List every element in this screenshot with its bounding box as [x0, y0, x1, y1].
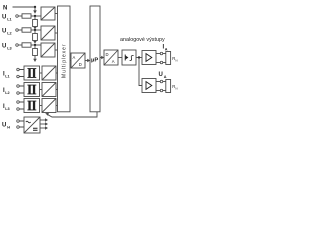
wire supply rail 3 [40, 126, 48, 129]
svg-text:U: U [2, 44, 6, 50]
svg-text:A: A [165, 47, 168, 51]
amplifier U13 (UA output stage) [142, 79, 156, 93]
node N junction [34, 6, 36, 8]
terminal UH b [17, 126, 20, 129]
wire N line [13, 6, 36, 8]
svg-text:A: A [112, 59, 115, 64]
node IL3 label [3, 104, 10, 111]
arrow into DAC [101, 56, 104, 60]
resistor R1 series UL1 [22, 14, 31, 18]
wire UL3 to converter [31, 44, 41, 46]
node UL1 label [2, 15, 12, 22]
wire UL3 tap down [34, 45, 36, 49]
node UA label [159, 72, 167, 79]
terminal IL3 b [17, 108, 20, 111]
wire supply rail 1 [40, 118, 48, 121]
node UL3 label [2, 44, 12, 51]
arrow UL2 to common [33, 41, 37, 44]
wire DAC to filter [118, 57, 122, 59]
resistor RN load of IA [166, 52, 171, 65]
value label RN (IA) [172, 56, 177, 62]
wire IL3 terminals to CT [20, 102, 25, 109]
terminal UL2 [16, 29, 19, 32]
wire U5 output to multiplexer [56, 89, 58, 91]
wire T2 to converter [40, 89, 43, 91]
wire T1 to converter [40, 72, 43, 74]
svg-text:U: U [2, 123, 6, 129]
node UL3 junction [34, 44, 36, 46]
transformer T3 (IL3 current transformer) [24, 99, 40, 113]
converter U1 (UL1 isolation amplifier) [41, 7, 55, 20]
wire microprocessor to DAC [100, 57, 102, 59]
D/A converter U10 [104, 50, 118, 65]
node IA label [163, 45, 168, 52]
node IL1 label [3, 72, 10, 79]
svg-text:N: N [175, 58, 177, 62]
resistor RN load of UA [166, 80, 171, 93]
arrow UL3 to common [33, 56, 37, 63]
svg-text:A: A [73, 55, 76, 60]
wire UL1 to converter [31, 15, 41, 17]
node output split junction [138, 56, 140, 58]
terminal UH a [17, 120, 20, 123]
wire gain control from microprocessor [45, 112, 97, 117]
wire U1 output to multiplexer [55, 13, 58, 15]
wire filter to output amplifiers [136, 57, 142, 59]
svg-text:D: D [79, 62, 82, 67]
svg-text:U: U [159, 72, 163, 78]
wire UA output plus [156, 81, 167, 83]
terminal IL1 b [17, 75, 20, 78]
svg-text:H: H [7, 126, 10, 130]
terminal IA minus [160, 61, 163, 64]
terminal IL2 a [17, 85, 20, 88]
A/D converter U8 [71, 53, 85, 68]
node UH label [2, 123, 10, 130]
wire split down to UA amplifier [139, 58, 142, 86]
wire U4 output to multiplexer [56, 72, 58, 74]
svg-text:Multiplexer: Multiplexer [62, 44, 68, 78]
wire IL1 terminals to CT [20, 70, 25, 77]
resistor R2 series UL2 [22, 28, 31, 32]
wire ADC to microprocessor [85, 60, 88, 62]
converter U6 (IL3 amplifier) [42, 99, 56, 113]
svg-text:D: D [106, 52, 109, 57]
arrow UL1 to common [33, 27, 37, 30]
svg-text:N: N [175, 86, 177, 90]
wire UL3 to resistor [18, 44, 22, 46]
terminal IA plus [160, 52, 163, 55]
wire IA output plus [156, 53, 167, 55]
node UL1 junction [34, 15, 36, 17]
svg-text:A: A [164, 75, 167, 79]
resistor divider UL1 [33, 20, 38, 27]
arrow N to common [33, 10, 37, 13]
value label RN (UA) [172, 84, 177, 90]
wire multiplexer to ADC [70, 60, 71, 62]
svg-text:L3: L3 [7, 47, 11, 51]
converter U5 (IL2 amplifier) [42, 83, 56, 97]
svg-text:L3: L3 [5, 107, 9, 111]
microprocessor U9 [90, 6, 100, 112]
node UL2 label [2, 29, 12, 36]
wire N tap down [34, 7, 36, 11]
terminal UL3 [16, 44, 19, 47]
wire UL2 tap down [34, 30, 36, 34]
multiplexer U7 [58, 6, 71, 112]
wire UA output minus [156, 90, 167, 92]
terminal UL1 [16, 15, 19, 18]
wire T3 to converter [40, 105, 43, 107]
wire U2 output to multiplexer [55, 32, 58, 34]
wire IA output minus [156, 62, 167, 64]
wire IL2 terminals to CT [20, 86, 25, 93]
svg-text:L2: L2 [5, 91, 9, 95]
terminal IL1 a [17, 68, 20, 71]
terminal IL3 a [17, 101, 20, 104]
svg-text:U: U [2, 29, 6, 35]
converter U2 (UL2 isolation amplifier) [41, 26, 55, 40]
wire UL2 to converter [31, 29, 41, 31]
transformer T1 (IL1 current transformer) [24, 66, 40, 80]
svg-text:U: U [2, 15, 6, 21]
power supply U14 (AC/DC converter) [24, 117, 40, 133]
wire UL1 to resistor [18, 15, 22, 17]
svg-text:L1: L1 [5, 74, 9, 78]
wire UL1 tap down [34, 16, 36, 20]
wire UH terminals to power supply [20, 121, 25, 127]
svg-text:N: N [3, 6, 7, 12]
resistor divider UL2 [33, 34, 38, 41]
svg-text:L2: L2 [7, 32, 11, 36]
wire U6 output to multiplexer [56, 105, 58, 107]
arrow into microprocessor [87, 59, 90, 63]
resistor R3 series UL3 [22, 43, 31, 47]
filter U11 (PWM low-pass filter) [122, 50, 136, 65]
terminal IL2 b [17, 92, 20, 95]
node IL2 label [3, 88, 10, 95]
converter U3 (UL3 isolation amplifier) [41, 43, 55, 57]
node UL2 junction [34, 29, 36, 31]
svg-text:analogové výstupy: analogové výstupy [120, 37, 165, 43]
converter U4 (IL1 amplifier) [42, 66, 56, 80]
amplifier U12 (IA output stage) [142, 51, 156, 65]
svg-text:µP: µP [91, 58, 98, 64]
resistor divider UL3 [33, 49, 38, 56]
terminal UA plus [160, 80, 163, 83]
terminal UA minus [160, 89, 163, 92]
wire U3 output to multiplexer [55, 49, 58, 51]
transformer T2 (IL2 current transformer) [24, 83, 40, 97]
wire UL2 to resistor [18, 29, 22, 31]
svg-text:L1: L1 [7, 18, 11, 22]
wire supply rail 2 [40, 122, 48, 125]
